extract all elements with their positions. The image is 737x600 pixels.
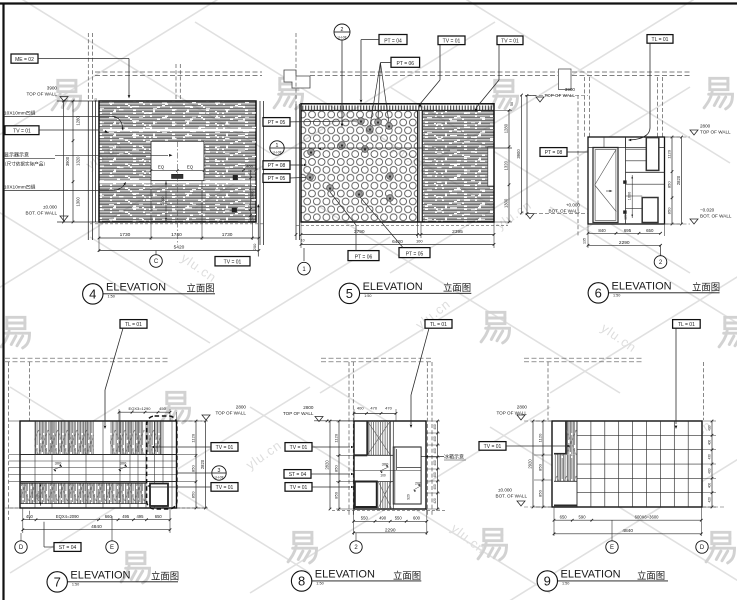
svg-text:1280: 1280: [76, 116, 81, 126]
svg-text:ELEVATION: ELEVATION: [70, 570, 130, 582]
svg-text:400: 400: [707, 425, 711, 431]
svg-text:200: 200: [415, 481, 421, 485]
svg-text:300: 300: [55, 460, 62, 465]
svg-text:850: 850: [334, 464, 339, 471]
svg-text:PT = 06: PT = 06: [397, 61, 415, 67]
svg-text:850: 850: [191, 491, 196, 498]
svg-text:660: 660: [105, 514, 113, 519]
svg-text:BOT. OF WALL: BOT. OF WALL: [549, 209, 581, 214]
svg-text:1:50: 1:50: [562, 582, 569, 586]
svg-text:120: 120: [624, 214, 628, 220]
svg-text:显示器示意: 显示器示意: [4, 151, 29, 158]
svg-text:LH-08: LH-08: [215, 476, 224, 480]
svg-text:ELEVATION: ELEVATION: [363, 281, 423, 293]
svg-text:2290: 2290: [385, 527, 396, 533]
svg-text:4840: 4840: [91, 524, 102, 530]
svg-text:200: 200: [252, 243, 257, 250]
svg-text:ELEVATION: ELEVATION: [106, 282, 166, 294]
svg-text:立面图: 立面图: [187, 283, 215, 294]
svg-text:2: 2: [341, 27, 344, 33]
svg-text:1120: 1120: [667, 149, 672, 158]
svg-text:6: 6: [595, 286, 602, 301]
svg-text:2820: 2820: [676, 175, 681, 185]
svg-text:TOP OF WALL: TOP OF WALL: [215, 410, 246, 415]
svg-text:6420: 6420: [392, 239, 403, 245]
svg-text:PT = 05: PT = 05: [268, 120, 286, 126]
svg-text:1730: 1730: [222, 232, 233, 238]
svg-text:400: 400: [433, 484, 437, 490]
svg-text:PT = 05: PT = 05: [406, 251, 424, 257]
svg-text:ME = 02: ME = 02: [15, 57, 34, 63]
svg-text:TOP OF WALL: TOP OF WALL: [700, 130, 731, 135]
svg-text:TV = 01: TV = 01: [443, 38, 461, 44]
svg-text:2920: 2920: [528, 459, 533, 469]
svg-text:400: 400: [707, 468, 711, 474]
svg-text:100: 100: [380, 474, 386, 478]
svg-text:1120: 1120: [191, 433, 196, 442]
svg-text:50: 50: [510, 102, 514, 106]
svg-text:590: 590: [579, 515, 587, 520]
svg-text:1:50: 1:50: [316, 582, 323, 586]
svg-text:1:50: 1:50: [364, 294, 371, 298]
svg-text:±0.000: ±0.000: [498, 487, 512, 492]
svg-text:600: 600: [413, 516, 421, 521]
svg-text:420: 420: [707, 497, 711, 503]
svg-text:1730: 1730: [120, 232, 131, 238]
svg-text:TV = 01: TV = 01: [290, 485, 308, 491]
svg-text:1300: 1300: [504, 198, 509, 208]
svg-text:100: 100: [416, 238, 423, 243]
svg-text:1000: 1000: [249, 190, 254, 200]
svg-text:8: 8: [298, 574, 305, 589]
svg-text:1:50: 1:50: [108, 294, 115, 298]
svg-text:5420: 5420: [174, 244, 185, 250]
svg-text:4840: 4840: [622, 528, 633, 534]
svg-text:400: 400: [433, 424, 437, 430]
svg-text:ELEVATION: ELEVATION: [612, 281, 672, 293]
svg-text:3900: 3900: [47, 85, 58, 90]
svg-text:3900: 3900: [65, 156, 70, 166]
svg-text:1:50: 1:50: [613, 293, 620, 297]
svg-text:850: 850: [538, 463, 543, 470]
svg-text:470: 470: [385, 406, 392, 411]
svg-text:90: 90: [94, 98, 98, 102]
svg-text:5: 5: [346, 286, 353, 301]
svg-text:300: 300: [382, 461, 389, 466]
svg-text:PT = 04: PT = 04: [384, 38, 402, 44]
svg-text:立面图: 立面图: [151, 571, 179, 582]
svg-text:TL = 01: TL = 01: [652, 37, 669, 43]
svg-text:850: 850: [334, 491, 339, 498]
svg-text:450: 450: [159, 406, 166, 411]
svg-text:TL = 01: TL = 01: [678, 322, 695, 328]
svg-text:D: D: [19, 545, 24, 551]
svg-text:TL = 01: TL = 01: [430, 322, 447, 328]
svg-text:430: 430: [707, 454, 711, 460]
svg-text:3790: 3790: [354, 229, 365, 235]
svg-text:PT = 08: PT = 08: [268, 163, 286, 169]
svg-text:LH-08: LH-08: [338, 35, 347, 39]
svg-text:920: 920: [407, 494, 411, 500]
svg-text:C: C: [154, 259, 159, 265]
svg-text:BOT. OF WALL: BOT. OF WALL: [26, 210, 58, 215]
svg-text:E: E: [110, 545, 114, 551]
svg-text:470: 470: [370, 406, 377, 411]
svg-text:10X10mm凹缝: 10X10mm凹缝: [4, 184, 36, 191]
svg-text:LH-08: LH-08: [273, 151, 282, 155]
svg-text:ELEVATION: ELEVATION: [315, 569, 375, 581]
svg-text:9: 9: [544, 574, 551, 589]
svg-text:2290: 2290: [619, 240, 630, 246]
svg-text:1320: 1320: [504, 160, 509, 170]
svg-text:EQX4=2090: EQX4=2090: [56, 514, 80, 519]
svg-text:PT = 06: PT = 06: [355, 254, 373, 260]
svg-text:2800: 2800: [303, 405, 314, 410]
svg-text:EQ: EQ: [158, 165, 165, 170]
svg-text:200: 200: [250, 215, 254, 221]
svg-text:2800: 2800: [700, 124, 711, 129]
svg-text:PT = 05: PT = 05: [268, 176, 286, 182]
svg-text:550: 550: [361, 516, 369, 521]
svg-text:400: 400: [433, 448, 437, 454]
svg-text:400: 400: [433, 460, 437, 466]
svg-text:±0.000: ±0.000: [43, 204, 57, 209]
svg-text:立面图: 立面图: [692, 282, 720, 293]
svg-text:TOP OF WALL: TOP OF WALL: [26, 91, 57, 96]
svg-text:ELEVATION: ELEVATION: [561, 569, 621, 581]
svg-text:495: 495: [136, 514, 144, 519]
svg-text:EQ: EQ: [187, 165, 194, 170]
svg-text:2800: 2800: [236, 404, 247, 409]
svg-text:2395: 2395: [452, 229, 463, 235]
svg-text:300: 300: [120, 460, 127, 465]
svg-text:135: 135: [583, 238, 587, 244]
svg-text:BOT. OF WALL: BOT. OF WALL: [496, 493, 528, 498]
svg-text:550: 550: [395, 516, 403, 521]
svg-text:840: 840: [598, 228, 606, 233]
svg-text:立面图: 立面图: [637, 570, 665, 581]
svg-text:400: 400: [433, 436, 437, 442]
svg-text:1400: 1400: [160, 196, 165, 206]
svg-text:PT = 08: PT = 08: [545, 150, 563, 156]
svg-text:400: 400: [707, 440, 711, 446]
svg-text:TV = 01: TV = 01: [216, 445, 234, 451]
svg-text:3900: 3900: [565, 87, 576, 92]
svg-text:7: 7: [54, 575, 61, 590]
svg-text:立面图: 立面图: [443, 282, 471, 293]
svg-text:EQX3=1290: EQX3=1290: [129, 406, 152, 411]
svg-text:TL = 01: TL = 01: [125, 322, 142, 328]
svg-text:495: 495: [122, 514, 130, 519]
svg-text:（尺寸依据实际产品）: （尺寸依据实际产品）: [2, 160, 48, 167]
svg-text:1320: 1320: [76, 156, 81, 166]
svg-text:1120: 1120: [538, 433, 543, 442]
svg-text:冰箱示意: 冰箱示意: [444, 453, 464, 460]
svg-text:2820: 2820: [325, 460, 330, 470]
svg-text:D: D: [700, 545, 705, 551]
svg-text:2820: 2820: [200, 459, 205, 469]
svg-text:490: 490: [379, 516, 387, 521]
svg-text:1740: 1740: [171, 232, 182, 238]
svg-text:TV = 01: TV = 01: [216, 485, 234, 491]
svg-text:E: E: [610, 545, 614, 551]
svg-text:4: 4: [89, 287, 96, 302]
svg-text:650: 650: [155, 514, 163, 519]
svg-text:−0.020: −0.020: [700, 208, 715, 213]
svg-text:TV = 01: TV = 01: [484, 444, 502, 450]
svg-text:1120: 1120: [334, 433, 339, 442]
svg-text:TV = 01: TV = 01: [13, 128, 31, 134]
svg-text:1300: 1300: [76, 197, 81, 207]
svg-text:BOT. OF WALL: BOT. OF WALL: [700, 214, 732, 219]
svg-text:ST = 04: ST = 04: [59, 545, 77, 551]
svg-text:TV = 01: TV = 01: [501, 38, 519, 44]
svg-text:+0.000: +0.000: [566, 203, 581, 208]
svg-text:600X6=3600: 600X6=3600: [635, 515, 660, 520]
svg-text:TOP OF WALL: TOP OF WALL: [283, 411, 314, 416]
svg-text:1: 1: [276, 143, 279, 149]
svg-text:立面图: 立面图: [393, 570, 421, 581]
svg-text:420: 420: [433, 498, 437, 504]
svg-text:3: 3: [218, 468, 221, 474]
svg-text:400: 400: [433, 472, 437, 478]
svg-text:1090: 1090: [36, 491, 40, 499]
svg-text:1000: 1000: [628, 192, 632, 200]
svg-text:695: 695: [624, 228, 632, 233]
svg-text:450: 450: [26, 514, 34, 519]
svg-text:2800: 2800: [517, 404, 528, 409]
svg-text:850: 850: [538, 489, 543, 496]
svg-text:ST = 04: ST = 04: [289, 472, 307, 478]
svg-text:850: 850: [667, 181, 672, 188]
svg-text:400: 400: [707, 483, 711, 489]
svg-text:1280: 1280: [504, 123, 509, 133]
svg-text:10X10mm凹缝: 10X10mm凹缝: [4, 110, 36, 117]
svg-text:TV = 01: TV = 01: [224, 260, 242, 266]
svg-text:400: 400: [246, 163, 253, 168]
svg-text:1:50: 1:50: [72, 582, 79, 586]
svg-text:10: 10: [301, 239, 305, 243]
svg-text:650: 650: [646, 228, 654, 233]
svg-text:850: 850: [667, 207, 672, 214]
svg-text:TV = 01: TV = 01: [290, 445, 308, 451]
svg-text:650: 650: [560, 515, 568, 520]
svg-text:3900: 3900: [516, 149, 521, 159]
svg-text:850: 850: [191, 464, 196, 471]
svg-text:400: 400: [357, 406, 364, 411]
